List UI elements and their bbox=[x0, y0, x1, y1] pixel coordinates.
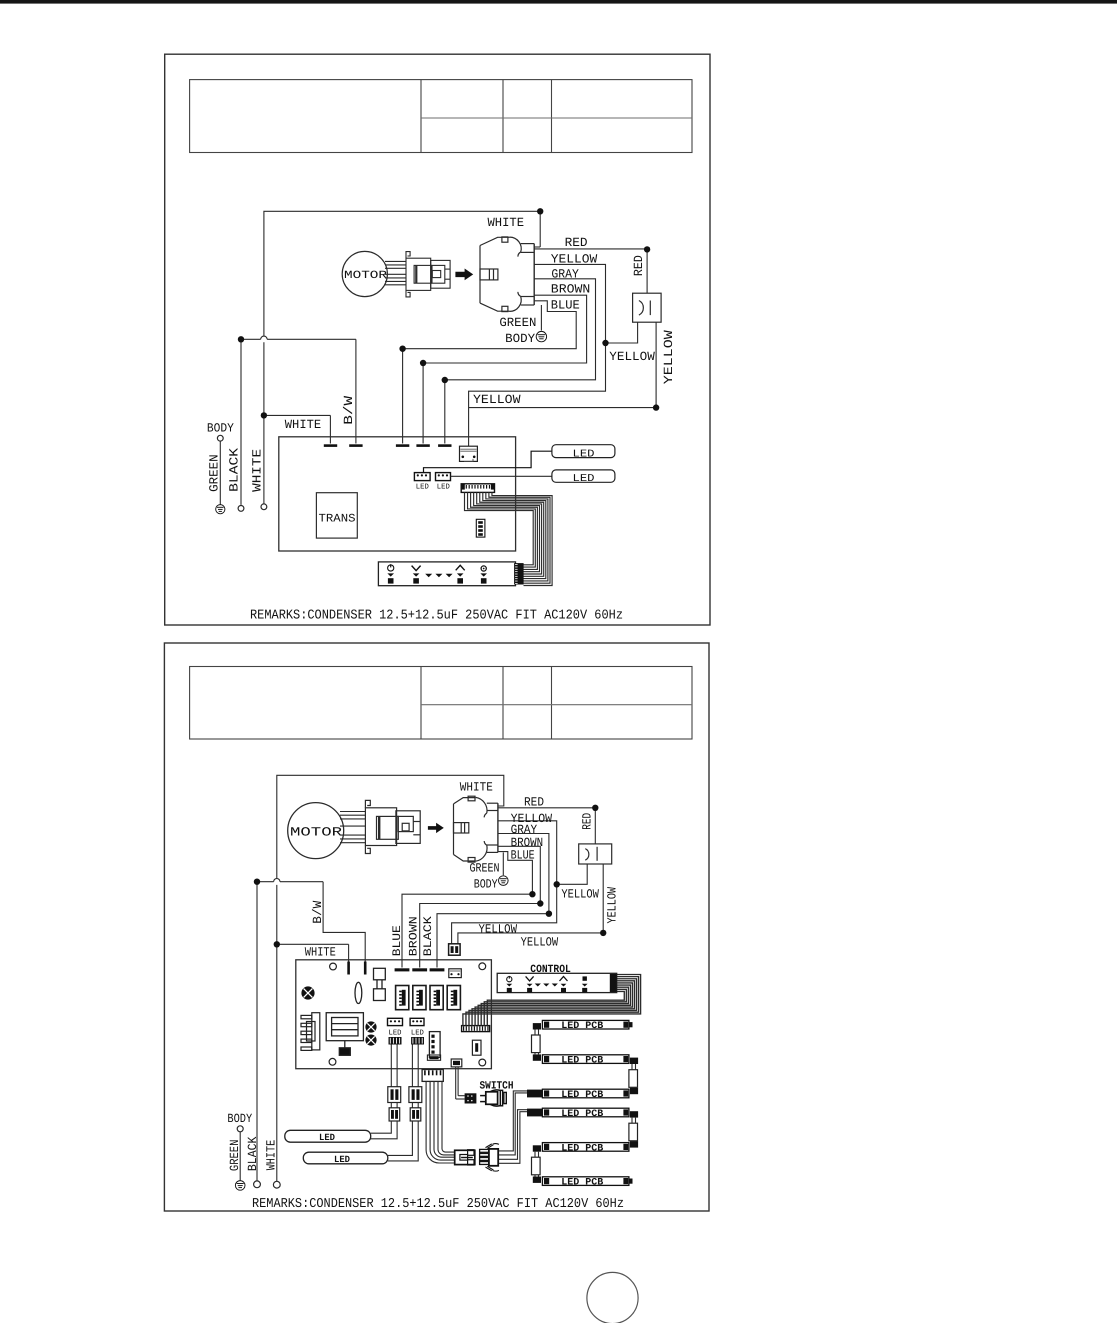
wire GRAY 2 to BLACK terminal bbox=[437, 834, 549, 968]
svg-text:GREEN: GREEN bbox=[228, 1140, 242, 1172]
diagram 1 border frame bbox=[165, 54, 710, 625]
svg-text:YELLOW: YELLOW bbox=[473, 393, 521, 407]
transformer T2 bbox=[326, 1013, 363, 1056]
wire pair led2 down bbox=[412, 1045, 418, 1087]
wire BROWN bbox=[423, 295, 586, 443]
led output header 1 bbox=[389, 1037, 402, 1045]
small cap component pcb2 bbox=[472, 1040, 481, 1055]
inline connector led2 b bbox=[410, 1103, 421, 1122]
svg-text:YELLOW: YELLOW bbox=[561, 887, 599, 901]
control power icon bbox=[507, 976, 512, 982]
junction dot brown 2 bbox=[537, 900, 543, 906]
pcb 2 terminal BROWN bbox=[412, 968, 427, 971]
control down icon bbox=[526, 976, 534, 981]
pcb terminal WHITE bbox=[324, 444, 337, 447]
page top black bar bbox=[0, 0, 1117, 4]
pcb connector CN-Y bbox=[460, 446, 478, 461]
pcb main board bbox=[279, 437, 516, 551]
svg-text:LED: LED bbox=[573, 473, 595, 485]
pcb 2 mounting holes bbox=[329, 963, 486, 1066]
LED bar 1 bbox=[285, 1130, 371, 1143]
control up icon bbox=[560, 977, 568, 982]
strip down icon bbox=[412, 566, 421, 571]
svg-text:LED PCB: LED PCB bbox=[561, 1108, 603, 1119]
wire lamp2 left leg bbox=[557, 864, 588, 884]
input terminal BLACK circle bbox=[238, 506, 244, 512]
wire BLACK branch B/W 2 bbox=[257, 882, 365, 1181]
svg-text:BROWN: BROWN bbox=[551, 283, 591, 297]
diagram 1 title block table bbox=[190, 80, 692, 153]
svg-text:LED: LED bbox=[416, 483, 429, 491]
wire WHITE branch to pcb bbox=[264, 415, 331, 443]
wire led1 to LED lamp1 bbox=[424, 451, 552, 472]
wire RED bbox=[534, 249, 647, 293]
svg-text:MOTOR: MOTOR bbox=[290, 825, 343, 839]
svg-text:LED: LED bbox=[411, 1029, 424, 1037]
relay sockets row bbox=[396, 986, 461, 1010]
pcb terminal BROWN bbox=[416, 444, 429, 447]
mating arrow bbox=[455, 269, 473, 281]
wire WHITE top rail bbox=[264, 211, 540, 503]
link strips 4-5 right bbox=[629, 1111, 638, 1147]
LED PCB strip 6 bbox=[542, 1177, 629, 1188]
svg-text:LED: LED bbox=[389, 1029, 402, 1037]
input terminal BODY bbox=[207, 421, 234, 504]
motor connector J2 body bbox=[454, 796, 498, 862]
input terminal WHITE circle bbox=[261, 504, 267, 510]
input terminal BLACK circle 2 bbox=[254, 1181, 261, 1188]
motor lead wires bbox=[385, 261, 406, 284]
junction dot red 2 bbox=[592, 805, 598, 811]
junction dot gray bbox=[442, 377, 448, 383]
svg-text:REMARKS:CONDENSER 12.5+12.5uF: REMARKS:CONDENSER 12.5+12.5uF 250VAC FIT… bbox=[250, 609, 623, 624]
led connector CN2 pcb2 bbox=[410, 1018, 424, 1037]
switch wires to strips bbox=[499, 1091, 527, 1163]
display pcb strip bbox=[378, 562, 523, 586]
hop over rail 2 bbox=[274, 879, 280, 882]
led output header 2 bbox=[411, 1037, 424, 1045]
bottom edge connector pcb2 bbox=[427, 1055, 440, 1060]
transformer TRANS box bbox=[316, 493, 357, 538]
link strips 1-2 left bbox=[532, 1023, 542, 1061]
svg-text:BODY: BODY bbox=[505, 332, 535, 346]
motor plug P2 bbox=[365, 800, 420, 853]
page number circle bbox=[587, 1272, 638, 1323]
svg-text:LED: LED bbox=[573, 448, 595, 460]
strip led glyphs bbox=[387, 573, 487, 583]
yellow input connector pcb2 bbox=[449, 944, 461, 955]
svg-text:BODY: BODY bbox=[227, 1112, 252, 1126]
led connector CN1 pcb2 bbox=[388, 1018, 403, 1037]
svg-text:WHITE: WHITE bbox=[488, 216, 525, 230]
svg-text:BODY: BODY bbox=[207, 421, 234, 435]
svg-text:WHITE: WHITE bbox=[251, 449, 265, 492]
strip 1 outer nub bbox=[629, 1022, 633, 1027]
input terminal BODY 2 bbox=[227, 1112, 252, 1181]
mating arrow 2 bbox=[428, 823, 444, 833]
svg-text:BLACK: BLACK bbox=[422, 916, 435, 956]
svg-text:YELLOW: YELLOW bbox=[662, 330, 676, 385]
pcb 2 terminal BLACK bbox=[430, 968, 445, 971]
wire GREEN 2 to body earth bbox=[502, 852, 504, 875]
led connector CN1 bbox=[414, 473, 430, 492]
inline connector led1 b bbox=[389, 1103, 400, 1122]
switch S1 bbox=[456, 1067, 514, 1106]
wire pair led1 down bbox=[391, 1045, 397, 1087]
svg-text:GRAY: GRAY bbox=[551, 267, 579, 281]
svg-text:LED: LED bbox=[334, 1154, 350, 1165]
LED PCB strip 3 bbox=[542, 1089, 629, 1100]
control dash icons bbox=[535, 984, 558, 987]
tall connector CN5 pcb2 bbox=[429, 1032, 440, 1058]
hop over white rail bbox=[261, 336, 267, 339]
svg-text:BLACK: BLACK bbox=[228, 447, 242, 492]
6pin connector white bbox=[455, 1150, 475, 1165]
junction dot yellow-lamp bbox=[602, 340, 608, 346]
pcb terminal GRAY bbox=[438, 444, 451, 447]
wire BLUE bbox=[403, 301, 577, 444]
svg-text:B/W: B/W bbox=[342, 395, 356, 425]
strip power icon bbox=[388, 564, 394, 571]
wire BROWN 2 bbox=[420, 846, 541, 967]
svg-text:BLUE: BLUE bbox=[551, 298, 580, 312]
motor M2 circle bbox=[288, 803, 344, 859]
ribbon cable bundle bbox=[465, 492, 553, 585]
jumper block bbox=[476, 519, 485, 537]
pcb 2 pin WHITE bbox=[347, 962, 350, 975]
component capacitor oval bbox=[355, 982, 362, 1003]
wire RED 2 bbox=[498, 808, 595, 844]
strip 6 outer nub bbox=[629, 1179, 633, 1184]
junction dot red bbox=[644, 246, 650, 252]
diagram 2 title block table bbox=[190, 667, 692, 740]
input terminal WHITE circle 2 bbox=[273, 1181, 280, 1188]
svg-text:WHITE: WHITE bbox=[305, 946, 336, 960]
earth symbol input 2 bbox=[235, 1181, 245, 1191]
wire lamp left leg bbox=[606, 322, 638, 343]
svg-text:REMARKS:CONDENSER 12.5+12.5uF: REMARKS:CONDENSER 12.5+12.5uF 250VAC FIT… bbox=[252, 1197, 624, 1212]
LED PCB strip 2 bbox=[542, 1055, 629, 1066]
strip gear icon bbox=[481, 566, 486, 571]
inline connector led1 a bbox=[388, 1087, 401, 1103]
inline connector led2 a bbox=[409, 1087, 422, 1103]
svg-text:B/W: B/W bbox=[311, 900, 325, 923]
control ribbon bundle bbox=[463, 975, 641, 1026]
svg-text:LED PCB: LED PCB bbox=[561, 1020, 603, 1031]
wire lamp right leg YELLOW bbox=[469, 322, 656, 407]
svg-text:BROWN: BROWN bbox=[408, 916, 421, 956]
junction dot yellow-lamp 2 bbox=[554, 881, 560, 887]
svg-text:LED: LED bbox=[437, 483, 450, 491]
earth symbol body bbox=[536, 331, 546, 341]
wire WHITE top rail 2 bbox=[277, 775, 504, 1182]
control led glyphs bbox=[506, 984, 587, 993]
connector CN-top-right pcb2 bbox=[449, 969, 462, 978]
motor plug P1 bbox=[406, 252, 450, 297]
svg-text:WHITE: WHITE bbox=[285, 418, 321, 432]
lamp L2 box bbox=[579, 844, 612, 864]
ribbon connector pcb2 bbox=[462, 1026, 490, 1032]
junction dot black 2 bbox=[254, 879, 260, 885]
svg-text:RED: RED bbox=[581, 813, 595, 830]
strip 4 input plug bbox=[527, 1109, 542, 1117]
svg-text:YELLOW: YELLOW bbox=[551, 253, 598, 267]
junction dot black bbox=[238, 336, 244, 342]
LED bar 2 bbox=[303, 1152, 388, 1165]
svg-text:BLACK: BLACK bbox=[246, 1136, 260, 1171]
wire pair to led bar 2 bbox=[388, 1121, 418, 1161]
wire WHITE branch to pcb 2 bbox=[277, 944, 349, 961]
svg-text:LED PCB: LED PCB bbox=[561, 1089, 603, 1100]
svg-text:LED PCB: LED PCB bbox=[561, 1055, 603, 1066]
LED lamp bar 2 bbox=[552, 470, 615, 485]
svg-text:TRANS: TRANS bbox=[319, 513, 356, 526]
lamp L1 box bbox=[633, 293, 662, 322]
pcb 2 pin B/W bbox=[364, 962, 367, 975]
ribbon connector CN3 bbox=[461, 484, 494, 493]
svg-text:LED PCB: LED PCB bbox=[561, 1177, 603, 1188]
wire YELLOW 2 from connector bbox=[452, 821, 557, 944]
wire GRAY bbox=[445, 279, 596, 444]
control panel box bbox=[497, 964, 617, 993]
junction dot yellow2-2 bbox=[600, 930, 606, 936]
svg-text:GREEN: GREEN bbox=[470, 862, 500, 876]
pcb 2 main board bbox=[296, 960, 492, 1069]
svg-text:GRAY: GRAY bbox=[511, 823, 538, 837]
svg-text:LED: LED bbox=[319, 1132, 335, 1143]
junction dot yellow2 bbox=[653, 404, 659, 410]
svg-text:SWITCH: SWITCH bbox=[480, 1081, 514, 1093]
strip dash icons bbox=[425, 574, 452, 577]
svg-text:RED: RED bbox=[524, 795, 544, 809]
svg-text:CONTROL: CONTROL bbox=[530, 964, 571, 976]
junction dot white rail bbox=[537, 208, 543, 214]
wire BLUE 2 bbox=[402, 852, 532, 968]
pcb terminal BLUE bbox=[396, 444, 409, 447]
pcb 2 terminal BLUE bbox=[395, 968, 410, 971]
svg-text:GREEN: GREEN bbox=[208, 454, 222, 492]
svg-text:LED PCB: LED PCB bbox=[561, 1142, 603, 1153]
wire GREEN to body earth bbox=[540, 305, 542, 331]
svg-text:GREEN: GREEN bbox=[499, 316, 536, 330]
svg-text:RED: RED bbox=[565, 236, 588, 250]
LED lamp bar 1 bbox=[552, 445, 615, 461]
wire pair to led bar 1 bbox=[371, 1121, 397, 1139]
junction dot brown bbox=[420, 360, 426, 366]
strip 3 input plug bbox=[527, 1090, 542, 1098]
svg-text:BLUE: BLUE bbox=[511, 849, 535, 863]
control square icon bbox=[583, 976, 587, 980]
svg-text:YELLOW: YELLOW bbox=[605, 887, 619, 924]
pcb terminal B/W bbox=[349, 444, 362, 447]
earth symbol body 2 bbox=[499, 876, 509, 886]
LED PCB strip 5 bbox=[542, 1142, 629, 1153]
link strips 5-6 left bbox=[532, 1145, 542, 1183]
wire lamp2 right leg bbox=[458, 864, 603, 944]
LED PCB strip 1 bbox=[542, 1020, 629, 1031]
junction dot gray 2 bbox=[546, 911, 552, 917]
motor connector J1 body bbox=[480, 237, 534, 312]
wire BLACK branch B/W bbox=[241, 339, 356, 505]
switch connector pcb2 bbox=[451, 1059, 462, 1067]
wire YELLOW from connector bbox=[469, 264, 606, 446]
junction dot white branch bbox=[261, 412, 267, 418]
svg-text:MOTOR: MOTOR bbox=[344, 270, 388, 282]
wire bundle pcb to 6pin bbox=[422, 1070, 455, 1164]
svg-text:BODY: BODY bbox=[474, 878, 498, 892]
svg-text:BLUE: BLUE bbox=[391, 925, 404, 956]
6pin connector black comb bbox=[480, 1144, 499, 1172]
junction dot blue 2 bbox=[529, 891, 535, 897]
link strips 2-3 right bbox=[629, 1058, 638, 1095]
component X-circles small bbox=[365, 1021, 376, 1045]
svg-text:YELLOW: YELLOW bbox=[479, 923, 518, 937]
earth symbol input bbox=[216, 505, 225, 514]
svg-text:WHITE: WHITE bbox=[265, 1140, 279, 1171]
svg-text:RED: RED bbox=[632, 255, 646, 276]
led connector CN2 bbox=[436, 473, 451, 492]
motor M1 circle bbox=[342, 251, 387, 296]
motor 2 lead wires bbox=[340, 812, 365, 843]
wire led2 to LED lamp2 bbox=[451, 475, 552, 477]
svg-text:YELLOW: YELLOW bbox=[609, 350, 655, 364]
junction dot white branch 2 bbox=[274, 941, 280, 947]
strip up icon bbox=[456, 565, 465, 570]
LED PCB strip 4 bbox=[542, 1108, 629, 1119]
svg-text:WHITE: WHITE bbox=[460, 780, 493, 794]
component X-circle big bbox=[301, 986, 314, 999]
junction dot blue bbox=[399, 346, 405, 352]
left header comb pcb2 bbox=[301, 1013, 320, 1051]
svg-text:YELLOW: YELLOW bbox=[521, 935, 559, 949]
diagram 2 border frame bbox=[164, 643, 709, 1211]
component fuse holder bbox=[374, 968, 386, 1000]
